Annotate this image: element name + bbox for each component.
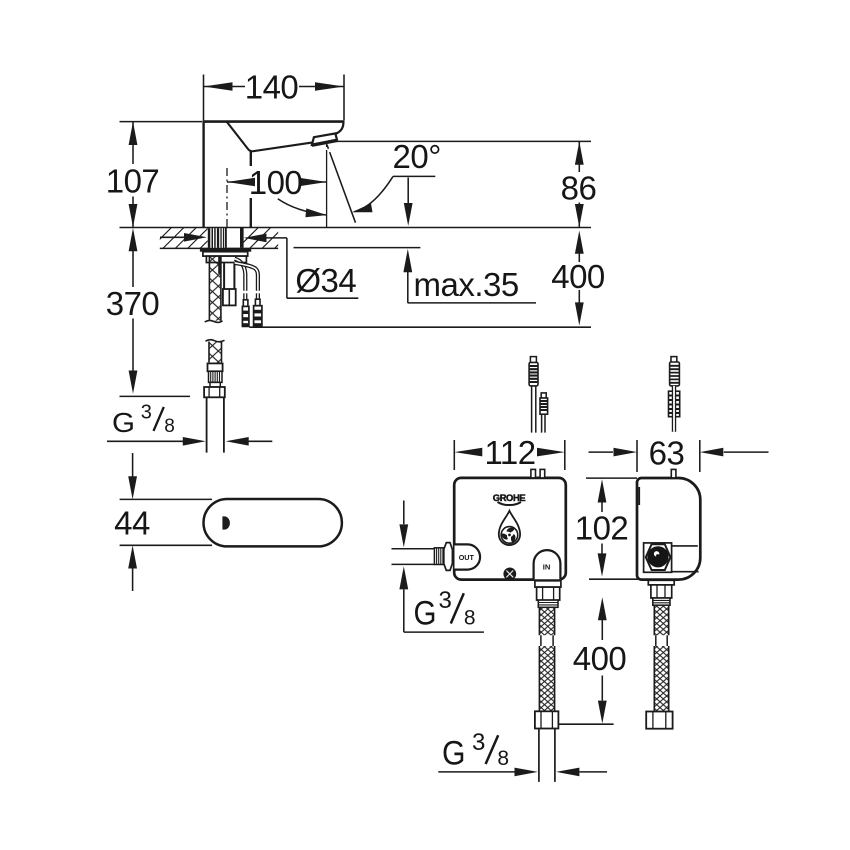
svg-text:370: 370: [106, 285, 160, 322]
svg-text:3: 3: [141, 401, 152, 423]
control box front view: [454, 478, 566, 580]
max.35 upper arrow: [407, 178, 409, 204]
dimension 112 extension lines: [454, 440, 565, 470]
side cable connector upper: [670, 357, 680, 386]
mounting locknut: [206, 256, 246, 262]
faucet shank threaded block in counter: [208, 228, 224, 248]
faucet shoulder slope and spout underside: [227, 122, 312, 151]
diameter 34 right arrow and leader: [267, 238, 359, 298]
svg-text:63: 63: [649, 434, 685, 471]
dimension 44 extension lines: [120, 499, 212, 545]
svg-text:max.35: max.35: [414, 266, 519, 303]
front hose waist: [541, 635, 553, 646]
svg-text:107: 107: [106, 163, 160, 200]
water stream line 20 degrees: [327, 145, 356, 223]
side outlet flange below side box: [648, 580, 674, 585]
svg-text:86: 86: [561, 169, 597, 206]
supply pipe ribbed section: [209, 371, 223, 382]
svg-text:GROHE: GROHE: [493, 492, 526, 503]
svg-text:3: 3: [472, 729, 485, 756]
dimension 400 upper arrows: [578, 254, 580, 303]
supply pipe collar: [208, 363, 223, 371]
dimension 102 extension lines: [586, 478, 641, 579]
svg-text:G: G: [442, 734, 466, 772]
cable connector A above front box: [529, 357, 538, 386]
outlet centerline extension to counter: [326, 144, 328, 228]
IN port arch: [534, 550, 561, 579]
front braided hose lower: [539, 646, 554, 711]
threaded rod dark edge: [218, 256, 221, 274]
supply pipe nut: [204, 387, 225, 397]
dimension 100 line and arrows: [248, 166, 304, 198]
counter top line: [120, 227, 592, 229]
threaded rod break line: [205, 320, 223, 322]
cable 2 connector: [254, 299, 262, 326]
mounting flange bar solid: [200, 248, 251, 251]
side box top pin: [671, 469, 676, 478]
sensor window mark: [222, 516, 230, 529]
dimension 63 extension lines: [637, 440, 700, 472]
outlet nipple threads left of box: [434, 548, 443, 565]
IN fitting ribs: [538, 600, 558, 607]
spout outlet aerator: [312, 133, 337, 144]
faucet shank tube in counter: [226, 228, 243, 248]
svg-text:OUT: OUT: [459, 553, 475, 562]
IN fitting hex body: [537, 587, 560, 600]
front hose tail pipe: [539, 729, 555, 782]
valve dark knob: [647, 546, 668, 567]
valve hexagon: [646, 544, 671, 570]
G 3/8 OUT label: [414, 587, 476, 633]
side box seam: [638, 487, 640, 505]
spout outlet bottom edge thick: [312, 140, 337, 145]
supply pipe break line top: [206, 340, 225, 342]
cable 1 connector: [242, 300, 249, 327]
water drop icon: [499, 511, 520, 545]
faucet body right edge curve: [336, 121, 344, 134]
svg-text:G: G: [112, 407, 135, 438]
faucet top view oval: [204, 499, 342, 546]
dimension 63 line and outside arrows: [589, 451, 769, 453]
cable connector B above front box: [540, 393, 548, 414]
counter bottom line: [160, 247, 278, 249]
dimension 400 lower arrows: [601, 620, 603, 701]
supply pipe tailpiece: [207, 397, 224, 452]
svg-text:112: 112: [484, 434, 535, 471]
side outlet ribs: [653, 598, 670, 605]
counter hatch left: [151, 228, 222, 249]
dimension 400 lower bottom extension line: [558, 723, 614, 725]
sensor cable 1: [235, 259, 246, 300]
G 3/8 bottom label: [442, 729, 509, 773]
side braided hose upper: [654, 605, 668, 635]
svg-text:102: 102: [575, 509, 629, 546]
dimension 400 upper bottom extension line: [249, 326, 591, 328]
OUT port bump: [455, 544, 481, 569]
svg-text:3: 3: [439, 587, 452, 614]
dimension 140 extension lines: [204, 75, 345, 121]
dimension 86 extension line: [334, 140, 591, 142]
G 3/8 bottom dimension line and arrows: [438, 771, 607, 773]
sensor cable tube: [224, 263, 234, 290]
diameter 34 left arrow: [160, 236, 184, 238]
side box band lines: [669, 546, 698, 572]
G 3/8 OUT up arrow and leader: [404, 589, 484, 632]
side hose waist: [656, 635, 667, 646]
svg-text:IN: IN: [543, 563, 551, 572]
svg-text:8: 8: [164, 416, 175, 437]
svg-text:8: 8: [497, 747, 509, 770]
dimension 44 line and outside arrows: [132, 453, 134, 591]
outlet pipe stub: [392, 549, 435, 565]
faucet body left edge: [202, 121, 204, 228]
threaded rod below counter: [209, 256, 221, 321]
svg-text:44: 44: [114, 504, 150, 541]
valve boss plate: [644, 543, 672, 572]
faucet body top line: [204, 120, 344, 123]
svg-text:400: 400: [573, 640, 627, 677]
dimension 140 line and arrows: [204, 86, 345, 88]
svg-text:Ø34: Ø34: [295, 262, 356, 299]
G 3/8 label left: [112, 401, 175, 438]
max.35 reference line: [294, 247, 421, 249]
supply pipe threaded section: [209, 342, 222, 363]
cable A wire: [532, 386, 536, 433]
control box side view: [637, 478, 700, 580]
counter hatch right: [237, 228, 295, 249]
outlet nipple collar: [444, 543, 453, 571]
front box top pins: [531, 469, 536, 478]
side cable wire: [672, 386, 676, 432]
20 degree leader arc with arrow: [355, 176, 394, 211]
dimension 102 line and arrows: [601, 502, 603, 554]
screw on front box bottom: [503, 568, 516, 581]
svg-text:20°: 20°: [393, 138, 441, 175]
svg-text:100: 100: [249, 164, 303, 201]
sensor cable 2: [235, 263, 258, 299]
tube coupler: [223, 289, 236, 305]
side braided hose lower: [654, 646, 668, 712]
IN fitting flange below front box: [535, 581, 561, 587]
dimension 112 line and arrows: [454, 448, 565, 457]
svg-text:8: 8: [464, 606, 476, 629]
side hose end nut: [646, 712, 672, 729]
svg-text:140: 140: [245, 69, 299, 106]
dimension 370 line and arrows: [132, 251, 134, 371]
cable B wire: [542, 414, 545, 432]
mounting washer: [203, 252, 248, 256]
dimension 107 extension line: [120, 121, 203, 123]
G 3/8 left dimension line and arrows: [107, 440, 272, 442]
faucet column right edge: [250, 152, 252, 228]
dimension 86 line and arrows: [578, 141, 580, 227]
20 degree label underline: [393, 175, 435, 177]
dimension 107 line and arrows: [132, 122, 134, 228]
faucet centerline dash-dot: [226, 168, 228, 227]
dimension 370 bottom extension line: [120, 395, 191, 397]
fan turbine inside drop: [501, 527, 518, 544]
side outlet body: [651, 585, 672, 598]
supply pipe neck: [210, 382, 220, 387]
svg-text:G: G: [414, 595, 437, 633]
max.35 lower arrow and leader: [408, 272, 536, 303]
front braided hose upper: [539, 607, 554, 635]
angle arc with arrow: [278, 199, 326, 215]
front hose end nut: [535, 711, 559, 728]
side cable connector lower behind wire: [669, 391, 680, 417]
G 3/8 OUT down arrow: [403, 501, 405, 525]
svg-text:400: 400: [551, 258, 605, 295]
